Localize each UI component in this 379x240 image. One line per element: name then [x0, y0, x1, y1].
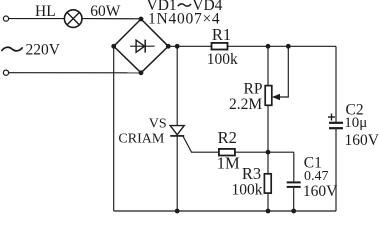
svg-text:R1: R1 [212, 25, 231, 44]
node C1 rail [291, 209, 296, 214]
wire bottom AC to bridge bottom corner [9, 72, 141, 74]
arrowhead RP wiper [272, 94, 280, 100]
node bridge left [111, 44, 116, 49]
wire top-left [9, 18, 64, 20]
svg-text:1M: 1M [217, 154, 240, 173]
node bridge top [139, 17, 144, 22]
wire bottom rail [114, 210, 336, 212]
node bridge bottom [139, 70, 144, 75]
node R2/RP/R3 junction [266, 150, 271, 155]
wire RP bottom lead [267, 105, 269, 152]
svg-text:100k: 100k [232, 181, 263, 198]
node RP wiper junction [286, 44, 291, 49]
terminal input top [3, 16, 8, 21]
wire R3 top lead [267, 152, 269, 174]
svg-text:10μ: 10μ [344, 115, 367, 131]
svg-text:0.47: 0.47 [304, 169, 329, 184]
wire lamp to bridge [82, 18, 141, 20]
node thyristor anode junction [175, 44, 180, 49]
wire thyristor cathode to rail [176, 136, 178, 211]
resistor R1 [212, 43, 228, 50]
wire C1 top lead [293, 152, 295, 181]
wire C1 bottom lead [293, 188, 295, 211]
label tilde VD [178, 4, 191, 6]
svg-text:220V: 220V [26, 41, 61, 58]
wire RP top lead [267, 46, 269, 85]
svg-text:RP: RP [244, 81, 263, 98]
wire right bus down to C2 [335, 46, 337, 122]
wire RP wiper [274, 46, 289, 97]
wire DC- left vertical [113, 46, 115, 211]
svg-text:100k: 100k [207, 51, 238, 68]
wire gate [183, 137, 219, 153]
potentiometer RP [265, 86, 272, 106]
wire R3 bottom lead [267, 193, 269, 211]
thyristor VS [170, 126, 184, 136]
svg-text:1N4007×4: 1N4007×4 [148, 10, 220, 27]
wire thyristor anode [176, 46, 178, 125]
wire DC+ bus [168, 45, 211, 47]
svg-text:160V: 160V [345, 132, 379, 149]
wire R2 to C1 branch [235, 151, 294, 153]
node thyristor cathode rail [175, 209, 180, 214]
bridge rectifier VD1~VD4 diamond [114, 19, 169, 73]
node bridge right [166, 44, 171, 49]
wire R1 to right corner [228, 45, 337, 47]
resistor R3 [264, 174, 271, 193]
label ~220V [2, 47, 23, 51]
svg-text:60W: 60W [90, 3, 121, 20]
capacitor C1 [287, 182, 301, 187]
svg-text:160V: 160V [303, 183, 338, 200]
node RP top junction [266, 44, 271, 49]
lamp HL [64, 10, 82, 28]
resistor R2 [219, 149, 235, 156]
svg-text:R2: R2 [218, 128, 237, 147]
diode inside bridge [130, 40, 155, 53]
svg-text:CRIAM: CRIAM [118, 131, 164, 146]
svg-text:HL: HL [35, 3, 56, 20]
terminal input bottom [3, 70, 8, 75]
svg-text:R3: R3 [242, 164, 261, 183]
label plus C2 [328, 114, 335, 121]
svg-text:VS: VS [149, 117, 167, 132]
capacitor C2 electrolytic [329, 123, 343, 128]
svg-text:2.2M: 2.2M [229, 96, 262, 113]
wire C2 to bottom rail [335, 129, 337, 211]
node R3 rail [266, 209, 271, 214]
